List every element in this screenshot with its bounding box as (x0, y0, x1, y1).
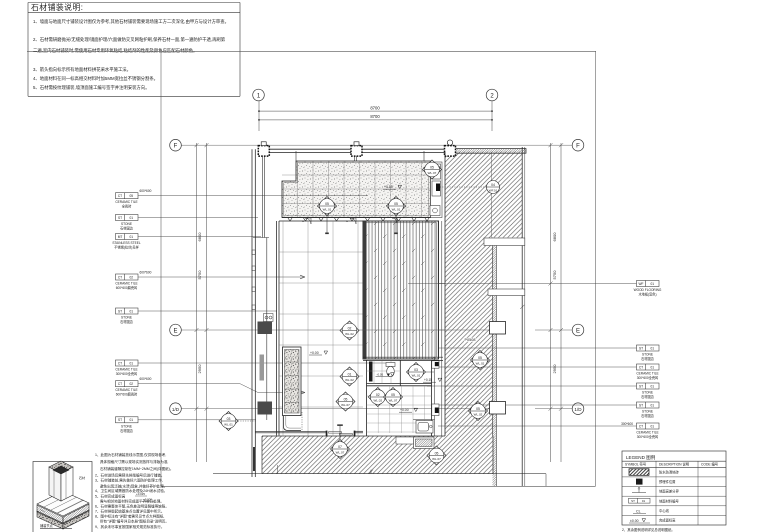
keynote J dashed leader (238, 420, 256, 422)
stone paving band (282, 161, 431, 218)
svg-text:E: E (173, 328, 177, 334)
svg-text:2950: 2950 (552, 364, 557, 374)
svg-text:5、石材需按纹理铺装,墙顶面施工编号签字并注明安装方向。: 5、石材需按纹理铺装,墙顶面施工编号签字并注明安装方向。 (33, 84, 150, 91)
svg-text:03: 03 (227, 417, 231, 421)
hall bottom wall (255, 431, 363, 433)
svg-text:CT: CT (118, 361, 122, 365)
svg-text:ST: ST (639, 403, 643, 407)
svg-text:01: 01 (130, 309, 134, 313)
svg-text:WL.07: WL.07 (389, 398, 398, 402)
iso detail column (49, 461, 73, 501)
corridor opening (488, 289, 525, 296)
right hatch region top block (445, 152, 522, 238)
svg-text:01: 01 (642, 499, 646, 503)
svg-text:石材圆边: 石材圆边 (120, 226, 134, 231)
svg-text:±0.00: ±0.00 (630, 519, 639, 523)
svg-text:300*600全瓷砖: 300*600全瓷砖 (116, 371, 138, 376)
keynote diamond I (384, 388, 403, 407)
svg-text:F: F (174, 144, 178, 150)
elevation mark bath (399, 408, 418, 412)
elevation mark band (383, 185, 402, 189)
svg-text:所有"详图"编号详见本册"图纸目录"说明页。: 所有"详图"编号详见本册"图纸目录"说明页。 (100, 519, 169, 524)
svg-text:ST: ST (639, 346, 643, 350)
svg-text:CL: CL (636, 510, 641, 514)
svg-text:1、此图为石材铺装放线示意图,仅供现场参考,: 1、此图为石材铺装放线示意图,仅供现场参考, (95, 452, 166, 457)
keynote diamond E (340, 367, 359, 386)
right wall fixture lower (432, 404, 439, 416)
svg-text:CERAMIC TILE: CERAMIC TILE (115, 368, 137, 372)
svg-text:05: 05 (430, 165, 434, 169)
svg-text:01: 01 (130, 235, 134, 239)
svg-text:05: 05 (391, 393, 395, 397)
svg-text:WL.07: WL.07 (341, 403, 350, 407)
elevation mark hall (309, 351, 328, 355)
svg-text:300*600全瓷砖: 300*600全瓷砖 (637, 375, 659, 380)
svg-text:2、石材需研磨抛光/无缝处理/镜面护理/六面做防交叉网粘护刷: 2、石材需研磨抛光/无缝处理/镜面护理/六面做防交叉网粘护刷,保养石材一面,第一… (33, 36, 226, 43)
left wall (252, 149, 279, 477)
svg-text:全瓷砖: 全瓷砖 (122, 204, 132, 209)
left wall door leaf (260, 355, 265, 381)
right annex boxes (430, 162, 442, 218)
svg-text:01: 01 (651, 424, 655, 428)
svg-text:CT: CT (639, 424, 643, 428)
svg-text:CERAMIC TILE: CERAMIC TILE (115, 200, 137, 204)
svg-text:01: 01 (348, 372, 352, 376)
legend symbol hatch (629, 469, 649, 476)
grid bubble E right (572, 324, 584, 336)
legend symbol tag (629, 498, 651, 503)
floor drain (387, 374, 390, 377)
keynote K stem (339, 426, 341, 441)
grid bubble 1/D left (170, 403, 182, 415)
svg-text:6800: 6800 (552, 232, 557, 242)
svg-text:-0.05: -0.05 (377, 373, 384, 377)
left wall lower bar (253, 447, 256, 471)
svg-text:完成面标高: 完成面标高 (659, 518, 676, 523)
svg-text:04: 04 (491, 183, 495, 187)
toilet fixture (386, 363, 395, 377)
svg-text:01: 01 (651, 384, 655, 388)
top dimension line 8700 upper (259, 110, 492, 112)
legend table (622, 451, 726, 525)
inner wall tick bottom (277, 465, 279, 474)
svg-text:01: 01 (651, 365, 655, 369)
sheet frame box (161, 51, 596, 486)
svg-text:石材圆边: 石材圆边 (641, 413, 655, 418)
svg-text:WOOD FLOORING: WOOD FLOORING (634, 288, 662, 292)
right material tags (637, 281, 660, 430)
top dimension line 8700 lower (259, 119, 492, 121)
svg-text:WF.01: WF.01 (489, 188, 498, 192)
top exterior wall hatched band (445, 149, 526, 154)
svg-text:02: 02 (130, 382, 134, 386)
svg-text:7、石材排版起始基准点位置详见图中所示。: 7、石材排版起始基准点位置详见图中所示。 (95, 509, 164, 514)
keynote diamond A (318, 197, 337, 216)
svg-text:01: 01 (130, 361, 134, 365)
svg-text:600*600磨瓷砖: 600*600磨瓷砖 (116, 285, 138, 290)
keynote diamond L (427, 446, 446, 465)
svg-text:CERAMIC TILE: CERAMIC TILE (636, 372, 658, 376)
keynote stem A (326, 216, 328, 233)
right hatch region mid strip (445, 238, 493, 437)
svg-text:9、其余未尽事宜按国家相关规范标准执行。: 9、其余未尽事宜按国家相关规范标准执行。 (95, 524, 164, 529)
svg-text:300*600: 300*600 (621, 422, 633, 426)
wood area left dark bar (363, 221, 367, 359)
svg-text:01: 01 (651, 282, 655, 286)
svg-text:CERAMIC TILE: CERAMIC TILE (115, 388, 137, 392)
svg-text:WL.02: WL.02 (476, 361, 485, 365)
bottom hatch band outline (262, 436, 493, 474)
stone band bottom wall (279, 218, 431, 222)
svg-text:STAINLESS STEEL: STAINLESS STEEL (112, 241, 141, 245)
svg-text:SYMBOL 符号: SYMBOL 符号 (625, 461, 647, 466)
svg-text:600*600: 600*600 (140, 189, 152, 193)
bathroom left black wall bar (369, 362, 373, 382)
svg-text:01: 01 (651, 346, 655, 350)
svg-text:+0.025: +0.025 (136, 492, 145, 496)
keynote diamond B (387, 197, 406, 216)
svg-text:石材: 石材 (79, 475, 85, 480)
keynote diamond N (469, 402, 488, 421)
left wall panel notches (252, 250, 273, 322)
svg-text:600*600磨瓷砖: 600*600磨瓷砖 (116, 392, 138, 397)
svg-text:8700: 8700 (370, 114, 380, 119)
svg-text:6、石材需整体平整,无色差及明显裂缝等缺陷。: 6、石材需整体平整,无色差及明显裂缝等缺陷。 (95, 504, 169, 509)
band top connector walls (296, 151, 424, 161)
storefront mullion ticks (288, 218, 429, 221)
leader overlay on wood (408, 283, 445, 285)
keynote diamond M (471, 351, 490, 370)
svg-text:01: 01 (130, 216, 134, 220)
svg-text:地面材料编号: 地面材料编号 (659, 498, 679, 503)
svg-text:STONE: STONE (642, 353, 653, 357)
svg-text:CERAMIC TILE: CERAMIC TILE (115, 282, 137, 286)
svg-text:1、墙面与地面尺寸铺装设计图仅为参考,其他石材铺装需要现场施: 1、墙面与地面尺寸铺装设计图仅为参考,其他石材铺装需要现场施工方二次深化,由甲方… (33, 18, 229, 25)
grid bubble 1/D right (572, 403, 584, 415)
hidden edge dashed (301, 412, 303, 431)
left stipple strip (283, 347, 302, 416)
corridor wall hatched strip (493, 246, 497, 487)
left wall column E (258, 322, 273, 335)
inner bottom boundary line (213, 473, 546, 475)
svg-text:CODE 编号: CODE 编号 (701, 461, 719, 466)
svg-text:WF: WF (639, 282, 644, 286)
sliding door leaves (329, 432, 342, 433)
svg-text:需与相邻地面材料完成面平齐收口处理。: 需与相邻地面材料完成面平齐收口处理。 (100, 499, 164, 504)
svg-text:5、石材完成面标高: 5、石材完成面标高 (95, 494, 126, 499)
svg-text:5750: 5750 (552, 270, 557, 280)
svg-text:CERAMIC TILE: CERAMIC TILE (636, 431, 658, 435)
left tag leader lines (138, 196, 390, 420)
svg-text:2、石材进场后需预先排版编号后进行铺装。: 2、石材进场后需预先排版编号后进行铺装。 (95, 473, 164, 478)
column F1 (258, 142, 269, 156)
svg-text:预埋件位置: 预埋件位置 (659, 479, 676, 484)
svg-text:WL.01: WL.01 (323, 207, 332, 211)
svg-text:STONE: STONE (642, 410, 653, 414)
top wall with columns (270, 149, 446, 152)
keynote G leader (426, 371, 435, 373)
detail box bottom-left (33, 462, 92, 532)
step block 2 (396, 437, 414, 444)
bottom-left notes list (95, 452, 173, 529)
legend symbol solid (636, 479, 643, 485)
svg-text:WL.01: WL.01 (224, 422, 233, 426)
svg-text:木地板(复色): 木地板(复色) (638, 292, 656, 297)
svg-text:+0.00: +0.00 (310, 351, 319, 355)
left material tags (116, 193, 139, 423)
right dimension lines (549, 143, 564, 462)
svg-text:2、其余图例说明详见总说明图纸。: 2、其余图例说明详见总说明图纸。 (622, 527, 675, 532)
svg-text:300*600全瓷砖: 300*600全瓷砖 (637, 434, 659, 439)
svg-text:不锈钢(拉丝)见样: 不锈钢(拉丝)见样 (114, 245, 139, 250)
grid bubble 1 (253, 89, 265, 101)
notes elevation marks (136, 492, 152, 502)
svg-text:中心线: 中心线 (659, 508, 670, 513)
svg-text:07: 07 (338, 445, 342, 449)
svg-text:+0.000: +0.000 (143, 498, 152, 502)
svg-text:石材圆边: 石材圆边 (641, 394, 655, 399)
grid line E overlay on wood (363, 329, 445, 331)
transition marks (302, 220, 428, 224)
svg-text:CT: CT (118, 382, 122, 386)
svg-text:3、箭头指向标示所有地面材料拼花采水平施工法。: 3、箭头指向标示所有地面材料拼花采水平施工法。 (33, 66, 131, 73)
svg-text:05: 05 (325, 202, 329, 206)
svg-text:+0.15: +0.15 (424, 378, 432, 382)
door jambs (326, 431, 328, 437)
grid line 1/D (181, 408, 489, 410)
svg-text:石材圆边: 石材圆边 (120, 319, 134, 324)
bottom hatch band (262, 436, 493, 474)
svg-text:05: 05 (476, 407, 480, 411)
notes paragraphs (33, 18, 229, 91)
svg-text:+0.15: +0.15 (384, 185, 393, 189)
svg-text:3、石材铺装前,需先做好六面防护处理工作,: 3、石材铺装前,需先做好六面防护处理工作, (95, 478, 163, 483)
svg-text:MT: MT (118, 235, 123, 239)
grid line F (181, 144, 572, 146)
svg-text:01: 01 (651, 403, 655, 407)
sheet frame line top (27, 50, 596, 52)
wood flooring area (363, 221, 439, 359)
svg-text:ST: ST (631, 499, 635, 503)
svg-text:WL.01: WL.01 (392, 207, 401, 211)
svg-text:≈: ≈ (302, 220, 304, 224)
grid line E (181, 329, 489, 331)
svg-text:防水防滑地砖: 防水防滑地砖 (659, 470, 679, 475)
grid line 2 vertical (491, 101, 493, 131)
svg-text:03: 03 (414, 368, 418, 372)
svg-text:DESCRIPTION 说明: DESCRIPTION 说明 (659, 461, 690, 466)
keynote diamond H (368, 388, 387, 407)
svg-text:P0508: P0508 (465, 338, 476, 342)
svg-text:石材铺装说明:: 石材铺装说明: (31, 2, 83, 12)
stone band tile grid (282, 161, 431, 218)
svg-text:CT: CT (118, 275, 122, 279)
svg-text:4、地面材料在同一标高相交材料时加5MM宽拉丝不锈钢分割条。: 4、地面材料在同一标高相交材料时加5MM宽拉丝不锈钢分割条。 (33, 75, 158, 82)
svg-text:1/D: 1/D (574, 407, 582, 412)
svg-text:WL.02: WL.02 (474, 412, 483, 416)
right tag leader lines (408, 284, 637, 427)
keynote diamond G (407, 363, 426, 382)
svg-text:01: 01 (130, 418, 134, 422)
svg-text:WL.02: WL.02 (345, 332, 354, 336)
left wall column 1/D (258, 402, 273, 415)
svg-text:WL.07: WL.07 (432, 457, 441, 461)
keynote diamond C (423, 160, 442, 179)
svg-text:02: 02 (348, 326, 352, 330)
right corridor walls (442, 147, 525, 486)
svg-text:铺装节点: 铺装节点 (40, 523, 54, 528)
beam over corridor (484, 238, 525, 246)
svg-text:E: E (576, 328, 580, 334)
svg-text:避免出现泛碱(水渍)现象,并做好养护处理。: 避免出现泛碱(水渍)现象,并做好养护处理。 (100, 484, 167, 489)
svg-text:600*600: 600*600 (140, 270, 152, 274)
keynote diamond D (340, 321, 359, 340)
keynote diamond J (219, 412, 238, 431)
bathroom walls (363, 357, 443, 436)
svg-text:二遍,室内石材铺装时,需使用石材专用环氧粘结,粘结剂的性能及: 二遍,室内石材铺装时,需使用石材专用环氧粘结,粘结剂的性能及颜色应匹配石材颜色。 (33, 47, 197, 54)
legend symbol level (632, 487, 646, 492)
wall column right E (490, 322, 506, 335)
svg-text:WL.02: WL.02 (373, 398, 382, 402)
keynote diamond K (331, 440, 350, 459)
bathroom fine tile grid (367, 360, 432, 433)
svg-text:WL.07: WL.07 (336, 450, 345, 454)
column F2 (351, 142, 362, 156)
leader overlay on stone band (282, 195, 368, 197)
svg-text:1/D: 1/D (172, 407, 180, 412)
elevation mark toilet (423, 378, 442, 382)
svg-text:STONE: STONE (121, 424, 132, 428)
svg-text:+0.00: +0.00 (400, 408, 409, 412)
svg-text:05: 05 (435, 451, 439, 455)
svg-text:STONE: STONE (642, 391, 653, 395)
svg-text:石材圆边: 石材圆边 (120, 428, 134, 433)
notes block top-left (28, 3, 240, 97)
svg-text:CT: CT (639, 365, 643, 369)
column F3 (445, 140, 456, 156)
vanity counter (416, 421, 433, 434)
svg-text:8、图中标注有"详图"者需另见节点大样图纸,: 8、图中标注有"详图"者需另见节点大样图纸, (95, 514, 164, 519)
svg-text:05: 05 (130, 194, 134, 198)
svg-text:≈: ≈ (346, 220, 348, 224)
grid bubble F right (572, 139, 584, 151)
svg-text:8700: 8700 (370, 105, 380, 110)
interior main tile grid (279, 221, 363, 436)
svg-text:STONE: STONE (121, 222, 132, 226)
svg-text:ST: ST (639, 384, 643, 388)
grid bubble 2 (486, 89, 498, 101)
svg-text:地面高差分界: 地面高差分界 (659, 489, 679, 494)
svg-text:WL.01: WL.01 (412, 373, 421, 377)
svg-text:4、卫生间区域需做防水处理及24H闭水试验。: 4、卫生间区域需做防水处理及24H闭水试验。 (95, 488, 167, 493)
keynote diamond F (336, 392, 355, 411)
svg-text:05: 05 (344, 397, 348, 401)
svg-text:05: 05 (394, 202, 398, 206)
iso detail slab layers (37, 491, 89, 529)
curved bench below strip (284, 416, 302, 431)
svg-text:石材圆边: 石材圆边 (641, 356, 655, 361)
elevation mark stall (376, 373, 395, 377)
keynote circle O (440, 181, 500, 194)
svg-text:02: 02 (376, 393, 380, 397)
door arcs under stone band (305, 218, 397, 224)
svg-text:2950: 2950 (197, 364, 202, 374)
svg-text:600*600: 600*600 (140, 377, 152, 381)
svg-text:WL.02: WL.02 (345, 378, 354, 382)
svg-text:石材铺装缝隙控制在1MM~2MM之间(详图纸)。: 石材铺装缝隙控制在1MM~2MM之间(详图纸)。 (100, 466, 173, 471)
hatched step block (414, 437, 435, 449)
svg-text:STONE: STONE (121, 316, 132, 320)
left dimension lines (195, 143, 209, 462)
svg-text:5750: 5750 (197, 270, 202, 280)
svg-text:02: 02 (130, 275, 134, 279)
grid bubble E left (170, 324, 182, 336)
svg-text:ST: ST (118, 309, 122, 313)
bottom band dim tick (369, 470, 373, 474)
right wall fixture upper (432, 361, 439, 368)
grid line 1 vertical (258, 101, 260, 131)
keynote stem B (395, 216, 397, 233)
grid bubble F left (170, 139, 182, 151)
svg-text:CT: CT (118, 194, 122, 198)
svg-text:F: F (576, 144, 580, 150)
svg-text:LEGEND 图例: LEGEND 图例 (626, 454, 656, 461)
svg-text:05: 05 (478, 356, 482, 360)
svg-text:ST: ST (118, 418, 122, 422)
svg-text:ST: ST (118, 216, 122, 220)
tick on corridor wall (520, 305, 524, 309)
svg-text:具体规格尺寸需以现场实测放样与排版为准,: 具体规格尺寸需以现场实测放样与排版为准, (100, 459, 168, 464)
svg-text:WL.07: WL.07 (428, 171, 437, 175)
wall column right 1/D (490, 402, 506, 415)
